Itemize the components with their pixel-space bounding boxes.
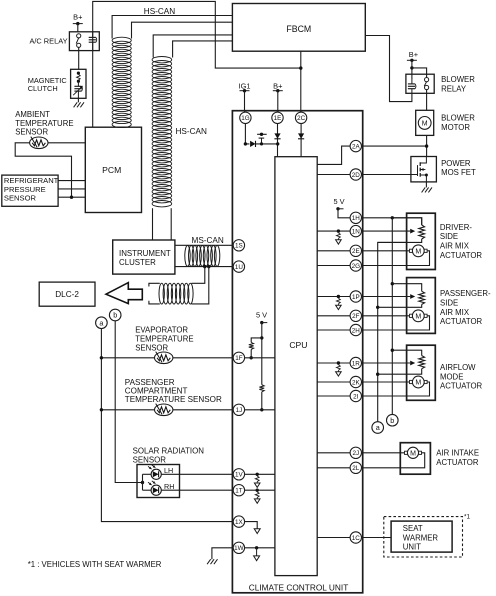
svg-text:ACTUATOR: ACTUATOR	[436, 458, 479, 467]
wiper arrow (passenger-side air mix)	[361, 294, 415, 299]
wire driver-side air mix resistor return	[378, 239, 422, 242]
wire 2J internal to CPU	[317, 452, 350, 454]
junction blower relay feed	[410, 66, 413, 69]
resistor (potentiometer passenger-side air mix)	[419, 291, 425, 304]
svg-text:M: M	[422, 121, 428, 128]
svg-text:ACTUATOR: ACTUATOR	[440, 251, 483, 260]
node 5V (right)	[333, 197, 344, 210]
svg-text:1G: 1G	[241, 115, 250, 122]
svg-text:AIR INTAKE: AIR INTAKE	[436, 449, 479, 458]
module SEAT WARMER UNIT	[391, 521, 452, 552]
label EVAPORATOR TEMPERATURE SENSOR	[135, 326, 193, 353]
svg-text:SOLAR RADIATION: SOLAR RADIATION	[133, 447, 205, 456]
svg-text:CLUSTER: CLUSTER	[119, 258, 156, 267]
ground arrow (1W)	[254, 548, 260, 561]
wire 1P internal to CPU	[317, 296, 350, 298]
wire passenger-side air mix feed into resistor	[392, 284, 421, 292]
pin 2K	[350, 376, 361, 387]
label POWER MOS FET	[441, 159, 476, 177]
solar radiation sensor box	[137, 465, 180, 498]
wire 1W to chassis ground	[212, 548, 234, 559]
ground arrow (1P)	[337, 298, 341, 304]
junction ambient return / sensor ground	[70, 196, 73, 199]
junction a bus airflow return	[376, 373, 379, 376]
wire 5V to pin 1H	[338, 209, 350, 218]
svg-text:1J: 1J	[236, 407, 243, 414]
ground (magnetic clutch)	[74, 98, 84, 107]
svg-text:AMBIENT: AMBIENT	[15, 110, 50, 119]
twisted pair HS-CAN (PCM to FBCM)	[112, 37, 131, 127]
driver-side air mix actuator box	[407, 213, 436, 269]
svg-text:CPU: CPU	[289, 340, 307, 350]
wire airflow mode feed into resistor	[392, 350, 421, 355]
refrigerant pressure sensor box	[2, 175, 59, 206]
wire 1N internal to CPU	[317, 230, 350, 232]
motor M (airflow mode)	[410, 376, 428, 388]
wire driver-side air mix motor - lead	[361, 251, 429, 266]
wire passenger compartment sensor (1J line)	[101, 409, 233, 411]
wire 2D to MOS FET gate	[361, 174, 411, 176]
wire HS-CAN pair 2 left to FBCM	[153, 35, 232, 58]
svg-text:AIR MIX: AIR MIX	[440, 308, 470, 317]
air intake actuator box	[400, 443, 430, 475]
svg-text:PASSENGER-: PASSENGER-	[440, 289, 491, 298]
svg-text:2K: 2K	[352, 379, 361, 386]
pin 1E	[272, 112, 283, 123]
pin 1H	[350, 212, 361, 223]
ground (1W)	[207, 559, 217, 564]
wire MOS FET source to ground	[425, 182, 427, 188]
junction b bus airflow feed	[391, 349, 394, 352]
wire 1X internal	[244, 522, 257, 529]
resistor R (5V rail to 1J)	[259, 385, 264, 392]
wire 1H to driver actuator feed	[361, 218, 422, 225]
svg-text:DLC-2: DLC-2	[55, 290, 79, 299]
passenger-side air mix actuator box	[407, 278, 436, 334]
svg-text:M: M	[415, 380, 421, 387]
svg-text:a: a	[376, 423, 380, 432]
pin 1P	[350, 291, 361, 302]
svg-text:PRESSURE: PRESSURE	[4, 185, 46, 194]
diode D2 (1E)	[274, 133, 280, 138]
wire tap2 to DLC-2 pair bottom	[192, 267, 209, 304]
wire A/C relay coil to FBCM junction (top trunk)	[93, 1, 301, 68]
junction b bus passenger feed	[391, 282, 394, 285]
junction 1G	[244, 142, 247, 145]
wire B+ to A/C relay	[77, 24, 79, 32]
junction 2A/motor	[425, 144, 428, 147]
junction a bus passenger return	[376, 306, 379, 309]
svg-text:2A: 2A	[352, 143, 361, 150]
svg-text:b: b	[113, 311, 117, 320]
wire 1J internal to CPU	[244, 409, 275, 411]
svg-text:2E: 2E	[352, 248, 360, 255]
wire passenger-side air mix resistor return	[378, 304, 422, 307]
svg-text:1H: 1H	[352, 215, 361, 222]
svg-text:WARMER: WARMER	[403, 533, 439, 542]
power MOS FET box	[411, 157, 437, 182]
wire 2G internal to CPU	[317, 265, 350, 267]
wire 2C internal	[300, 123, 302, 157]
wire ambient sensor to PCM	[47, 142, 85, 144]
junction solar feed	[141, 481, 144, 484]
wire passenger-side air mix motor - lead	[361, 316, 429, 330]
wire MS-CAN bottom (cluster to 1U)	[175, 266, 234, 268]
svg-text:1W: 1W	[234, 545, 244, 552]
svg-text:INSTRUMENT: INSTRUMENT	[119, 249, 171, 258]
wire RH to 1T	[161, 489, 233, 491]
wire MS-CAN top (cluster to 1S)	[175, 244, 234, 246]
wire b bus down to solar sensor	[115, 321, 142, 483]
blower relay coil	[408, 80, 416, 93]
label SOLAR RADIATION SENSOR	[133, 447, 205, 465]
magnetic clutch coil	[73, 81, 82, 98]
wire 2K internal to CPU	[317, 381, 350, 383]
node b (left)	[109, 309, 121, 321]
svg-text:5 V: 5 V	[333, 197, 344, 206]
junction FBCM/2C/relay	[299, 66, 302, 69]
wire blower motor to MOS FET	[426, 135, 428, 156]
svg-text:MODE: MODE	[440, 372, 463, 381]
pin 2E	[350, 245, 361, 256]
svg-text:1E: 1E	[274, 115, 282, 122]
blower motor box	[416, 110, 434, 135]
svg-text:M: M	[415, 248, 421, 255]
junction 1V pulldown	[256, 473, 259, 476]
wire 2E internal to CPU	[317, 250, 350, 252]
wire HS-CAN pair 2 right to FBCM	[173, 41, 233, 58]
junction 1W	[255, 546, 258, 549]
photodiode RH	[148, 481, 161, 496]
airflow mode actuator box	[407, 345, 436, 400]
ground arrow (1R)	[337, 365, 341, 371]
wire twisted pair to instrument cluster right	[170, 208, 172, 240]
wire 1T internal to CPU	[244, 489, 275, 491]
resistor (potentiometer airflow mode)	[419, 356, 425, 369]
node B+ (A/C relay feed)	[73, 13, 83, 26]
wire 1C internal to CPU	[317, 537, 350, 539]
svg-text:POWER: POWER	[441, 159, 471, 168]
module FBCM	[232, 4, 365, 52]
junction a/evaporator	[100, 356, 103, 359]
diode D1 (1G)	[250, 141, 255, 147]
label DRIVER-SIDE AIR MIX ACTUATOR	[440, 223, 483, 260]
svg-text:REFRIGERANT: REFRIGERANT	[4, 176, 59, 185]
svg-text:EVAPORATOR: EVAPORATOR	[135, 326, 188, 335]
label BLOWER RELAY	[441, 75, 475, 93]
node B+ (1E feed)	[273, 82, 283, 93]
label AMBIENT TEMPERATURE SENSOR	[15, 110, 73, 137]
ground (MOS FET)	[422, 187, 432, 192]
junction 5V branch	[260, 336, 263, 339]
svg-text:SENSOR: SENSOR	[4, 194, 37, 203]
wire 1R internal to CPU	[317, 362, 350, 364]
wire refrigerant sensor line 3	[58, 196, 85, 198]
module CLIMATE CONTROL UNIT	[232, 111, 362, 593]
svg-text:HS-CAN: HS-CAN	[176, 127, 207, 136]
junction 1R pulldown	[337, 361, 340, 364]
wire ambient sensor return	[15, 143, 71, 197]
wire LH to 1V	[161, 473, 233, 475]
svg-text:PCM: PCM	[102, 165, 121, 175]
svg-text:2F: 2F	[352, 313, 360, 320]
wire relay contact to blower motor	[426, 90, 428, 111]
wire 2A internal to CPU	[317, 146, 350, 164]
wire evaporator sensor (1F line)	[101, 357, 233, 359]
wire driver-side air mix motor + lead	[361, 250, 409, 252]
pin 1R	[350, 357, 361, 368]
junction pullup/1F	[250, 356, 253, 359]
wire relay to magnetic clutch	[78, 47, 80, 69]
wire DLC-2 pair top lead	[149, 283, 160, 286]
pin 2C	[295, 112, 306, 123]
pin 1W	[233, 542, 244, 553]
wire driver-side air mix feed into resistor	[392, 218, 421, 225]
wire 1G internal	[245, 123, 249, 144]
label AIR INTAKE ACTUATOR	[436, 449, 479, 467]
wire pullup to 1F wire	[250, 349, 252, 357]
pin 2H	[350, 324, 361, 335]
node 5V (left)	[256, 311, 267, 325]
pin 1U	[233, 261, 244, 272]
junction 1H / b bus	[391, 216, 394, 219]
photodiode LH	[148, 465, 161, 480]
pin 1T	[233, 485, 244, 496]
label PASSENGER COMPARTMENT TEMPERATURE SENSOR	[125, 378, 222, 404]
relay BLOWER RELAY	[406, 74, 434, 93]
junction 1N pulldown	[337, 229, 340, 232]
junction a/passenger sensor	[100, 408, 103, 411]
thermistor (evaporator temperature sensor)	[155, 352, 173, 364]
svg-text:1S: 1S	[235, 243, 243, 250]
wire solar feed split	[142, 474, 144, 490]
svg-text:AIR MIX: AIR MIX	[440, 242, 470, 251]
node IG1	[239, 82, 251, 93]
ground arrow (1X)	[254, 529, 260, 534]
wire diode to 1E node	[255, 143, 278, 145]
junction 1E/1G	[276, 142, 279, 145]
node a (left)	[96, 317, 108, 329]
junction MS-CAN tap 1	[203, 265, 206, 268]
svg-text:FBCM: FBCM	[286, 24, 311, 34]
node B+ (blower relay)	[407, 50, 418, 62]
wire 2L internal to CPU	[317, 467, 350, 469]
wire branch to 1F pullup	[251, 338, 262, 343]
wiper arrow (airflow mode)	[361, 361, 415, 366]
resistor (potentiometer driver-side air mix)	[419, 225, 425, 239]
wire B+ to blower relay	[411, 60, 413, 80]
svg-text:B+: B+	[73, 13, 82, 22]
magnetic clutch MC	[71, 69, 86, 98]
svg-text:SENSOR: SENSOR	[133, 455, 167, 464]
pin 1G	[240, 112, 251, 123]
svg-text:1N: 1N	[352, 228, 361, 235]
svg-text:BLOWER: BLOWER	[441, 114, 475, 123]
label PASSENGER-SIDE AIR MIX ACTUATOR	[440, 289, 491, 326]
wire tap1 to DLC-2 pair top	[192, 267, 205, 284]
wire DLC-2 pair bottom lead	[149, 301, 160, 304]
wire B+ to pin 1E	[277, 91, 279, 113]
svg-text:*1: *1	[464, 513, 470, 520]
pin 2J	[350, 447, 361, 458]
svg-text:CLIMATE CONTROL UNIT: CLIMATE CONTROL UNIT	[249, 583, 349, 593]
svg-text:2I: 2I	[353, 393, 359, 400]
svg-text:LH: LH	[164, 466, 173, 475]
module PCM	[85, 127, 141, 212]
wire FBCM bottom to 2C	[300, 51, 302, 112]
wire airflow mode motor + lead	[361, 381, 409, 383]
svg-text:2G: 2G	[352, 263, 361, 270]
motor M (blower motor)	[418, 117, 431, 130]
svg-text:1T: 1T	[235, 488, 243, 495]
wire refrigerant sensor line 1	[58, 180, 85, 182]
svg-text:UNIT: UNIT	[403, 543, 421, 552]
svg-text:TEMPERATURE: TEMPERATURE	[135, 335, 193, 344]
svg-text:1X: 1X	[235, 519, 244, 526]
wire FBCM to blower relay coil	[365, 36, 412, 102]
module INSTRUMENT CLUSTER	[113, 240, 175, 274]
wire passenger-side air mix motor + lead	[361, 315, 409, 317]
label AIRFLOW MODE ACTUATOR	[440, 363, 483, 391]
wire 5V rail down to 1J	[261, 323, 263, 385]
wire 1C to seat warmer	[361, 537, 391, 539]
svg-text:2C: 2C	[297, 115, 306, 122]
svg-text:BLOWER: BLOWER	[441, 75, 475, 84]
svg-text:SENSOR: SENSOR	[135, 344, 168, 353]
wire 1F internal to CPU	[244, 357, 275, 359]
pin 2I	[350, 390, 361, 401]
wire airflow mode motor - lead	[361, 382, 429, 396]
wire 1V internal to CPU	[244, 473, 275, 475]
junction rail/1J	[260, 408, 263, 411]
wire 2I internal to CPU	[317, 395, 350, 397]
svg-text:MOTOR: MOTOR	[441, 123, 470, 132]
twisted pair (to DLC-2)	[159, 283, 193, 304]
ground arrow (1N)	[337, 233, 341, 239]
pin 2L	[350, 462, 361, 473]
svg-text:ACTUATOR: ACTUATOR	[440, 317, 483, 326]
motor M (passenger-side air mix)	[410, 310, 428, 322]
label BLOWER MOTOR	[441, 114, 475, 132]
svg-text:DRIVER-: DRIVER-	[440, 223, 472, 232]
node b (right)	[387, 414, 399, 426]
pin 1X	[233, 516, 244, 527]
wire IG1 to pin 1G	[244, 91, 246, 113]
junction 1P pulldown	[337, 295, 340, 298]
svg-text:RELAY: RELAY	[441, 84, 467, 93]
svg-text:HS-CAN: HS-CAN	[144, 7, 175, 16]
pin 1C	[350, 532, 361, 543]
ground arrow (1T)	[255, 492, 259, 498]
wire 1E internal	[277, 123, 279, 157]
svg-text:b: b	[390, 416, 394, 425]
wire a bus (actuator returns)	[378, 242, 407, 421]
wire 2J to air intake motor	[361, 452, 405, 454]
wiper arrow (driver-side air mix)	[361, 229, 415, 234]
svg-text:TEMPERATURE: TEMPERATURE	[15, 119, 73, 128]
twisted pair MS-CAN (cluster to climate unit)	[185, 246, 220, 267]
svg-text:SENSOR: SENSOR	[15, 128, 48, 137]
svg-text:MOS FET: MOS FET	[441, 168, 476, 177]
svg-text:2J: 2J	[352, 450, 359, 457]
wire HS-CAN pair 1 right to FBCM	[132, 22, 233, 38]
twisted pair HS-CAN (FBCM to instrument cluster)	[152, 57, 172, 207]
pin 2G	[350, 260, 361, 271]
svg-text:2H: 2H	[352, 327, 361, 334]
svg-text:TEMPERATURE SENSOR: TEMPERATURE SENSOR	[125, 395, 222, 404]
svg-text:ACTUATOR: ACTUATOR	[440, 382, 483, 391]
wire 2L to air intake motor	[361, 453, 425, 468]
wire HS-CAN pair 1 left to FBCM	[112, 16, 232, 39]
seat warmer dashed outline	[384, 517, 463, 557]
svg-text:2D: 2D	[352, 172, 361, 179]
wire airflow mode resistor return	[378, 369, 422, 375]
wire a bus down to 1X	[101, 329, 233, 522]
wire feed to relay contact	[412, 68, 427, 78]
svg-text:1C: 1C	[352, 535, 361, 542]
svg-text:AIRFLOW: AIRFLOW	[440, 363, 476, 372]
svg-text:1F: 1F	[235, 355, 243, 362]
svg-text:RH: RH	[164, 482, 174, 491]
svg-text:M: M	[410, 450, 416, 457]
wire twisted pair to instrument cluster left	[152, 208, 154, 240]
resistor R (1F pullup)	[249, 342, 254, 349]
svg-text:1U: 1U	[235, 264, 244, 271]
svg-text:B+: B+	[409, 50, 418, 59]
wire A/C relay coil to PCM	[92, 51, 94, 128]
svg-text:M: M	[415, 313, 421, 320]
wire 1W internal to CPU	[244, 547, 275, 549]
pin 1N	[350, 225, 361, 236]
capacitor C1 (key line)	[257, 133, 267, 146]
motor M (air intake)	[405, 447, 422, 458]
pin 1J	[233, 404, 244, 415]
arrow to DLC-2	[106, 283, 142, 304]
junction MS-CAN tap 2	[207, 265, 210, 268]
thermistor (ambient temperature sensor)	[30, 137, 48, 149]
wire 2H internal to CPU	[317, 329, 350, 331]
ground arrow (1V)	[255, 476, 259, 482]
svg-text:*1 : VEHICLES WITH SEAT WARMER: *1 : VEHICLES WITH SEAT WARMER	[28, 560, 162, 569]
svg-text:A/C RELAY: A/C RELAY	[29, 37, 67, 46]
svg-text:SEAT: SEAT	[403, 524, 423, 533]
pin 2F	[350, 310, 361, 321]
module CPU	[275, 157, 317, 576]
svg-text:MS-CAN: MS-CAN	[192, 236, 224, 245]
svg-text:1V: 1V	[235, 472, 244, 479]
junction 1T pulldown	[256, 489, 259, 492]
wire 2D internal to CPU	[317, 174, 350, 176]
pin 2A	[350, 140, 361, 151]
wire b bus down to node b	[391, 218, 393, 415]
svg-text:1R: 1R	[352, 360, 361, 367]
pin 1V	[233, 469, 244, 480]
pin 1F	[233, 352, 244, 363]
diode D3 (2C)	[298, 133, 304, 138]
pin 1S	[233, 240, 244, 251]
connector DLC-2	[39, 282, 95, 306]
node a (right)	[372, 422, 384, 434]
transistor Q1 (power MOS FET)	[411, 157, 428, 182]
svg-text:5 V: 5 V	[256, 311, 267, 320]
pin 2D	[350, 169, 361, 180]
svg-text:a: a	[99, 318, 103, 327]
wire 2A to motor junction	[361, 145, 426, 147]
svg-text:1P: 1P	[352, 294, 360, 301]
motor M (driver-side air mix)	[410, 245, 428, 257]
wire refrigerant sensor line 2	[58, 188, 85, 190]
A/C relay coil	[89, 32, 97, 51]
